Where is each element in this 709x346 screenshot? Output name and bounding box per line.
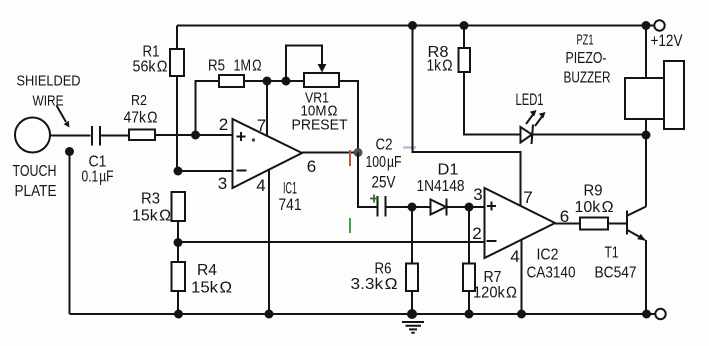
node IC2 pin4 rail [517, 310, 526, 319]
node D1/R7 [465, 203, 474, 212]
ground symbol [402, 322, 424, 333]
node R7 ground [465, 310, 474, 319]
resistor R1 [170, 49, 184, 76]
svg-text:R6: R6 [375, 261, 392, 278]
svg-text:4: 4 [510, 247, 519, 266]
node R4 ground rail [174, 310, 183, 319]
svg-text:3: 3 [473, 185, 482, 204]
svg-text:2: 2 [472, 224, 481, 243]
svg-text:10k Ω: 10k Ω [575, 199, 614, 216]
svg-text:R5: R5 [208, 58, 225, 75]
svg-text:3.3k Ω: 3.3k Ω [351, 276, 398, 293]
node rail buzzer [642, 21, 651, 30]
wire rail down and across to IC2 pin 7 [413, 26, 521, 207]
svg-text:2: 2 [219, 115, 228, 134]
svg-text:741: 741 [279, 195, 302, 214]
node R5 to plus input [191, 131, 200, 140]
svg-text:120k Ω: 120k Ω [473, 285, 517, 302]
wire emitter down to rail [645, 240, 647, 314]
svg-text:IC2: IC2 [537, 247, 559, 264]
node stray mark inside IC1 [252, 138, 255, 141]
diode D1 [431, 200, 447, 215]
wire collector up to buzzer node [645, 135, 647, 207]
scan color dash green [349, 218, 351, 233]
svg-text:6: 6 [307, 157, 316, 176]
svg-text:15k Ω: 15k Ω [132, 208, 171, 225]
svg-text:C2: C2 [376, 137, 393, 154]
svg-text:56k Ω: 56k Ω [133, 59, 168, 76]
wire R4 bottom to rail [177, 291, 179, 314]
svg-text:PRESET: PRESET [292, 117, 348, 134]
+12V terminal [654, 20, 664, 30]
svg-text:PLATE: PLATE [15, 183, 57, 200]
resistor R7 [463, 264, 475, 292]
svg-text:BUZZER: BUZZER [564, 70, 611, 87]
wire shield down the left side [69, 152, 71, 315]
node VR1 wiper loop [282, 77, 291, 86]
svg-text:+12V: +12V [651, 31, 684, 50]
node R6 ground [407, 309, 417, 319]
resistor R4 [172, 262, 186, 291]
wire R3 bottom to divider node [177, 221, 179, 243]
node emitter rail [642, 310, 651, 319]
node rail R8 [460, 21, 469, 30]
svg-text:1k Ω: 1k Ω [427, 58, 453, 75]
svg-text:D1: D1 [438, 162, 459, 179]
resistor R8 [459, 48, 471, 72]
node IC1 pin4 rail [265, 310, 274, 319]
wire R5 left leg down to plus input [196, 81, 220, 135]
output terminal bottom [655, 309, 665, 319]
svg-text:47k Ω: 47k Ω [124, 110, 158, 127]
wire buzzer drop [645, 26, 647, 79]
node IC1 output [354, 148, 363, 157]
wire IC1 pin 4 to rail [268, 170, 270, 315]
resistor R2 [129, 130, 155, 141]
svg-text:PIEZO-: PIEZO- [566, 50, 607, 67]
wire IC2 output to R9 [555, 223, 580, 225]
svg-text:WIRE: WIRE [33, 93, 64, 110]
svg-text:1N4148: 1N4148 [417, 178, 465, 195]
wire R1 top drop from rail [176, 26, 178, 50]
wire IC1 output [302, 152, 358, 154]
LED LED1 [521, 127, 533, 143]
wire R8 top [463, 26, 465, 49]
svg-text:CA3140: CA3140 [527, 265, 576, 282]
svg-text:4: 4 [256, 176, 265, 195]
wire VR1 wiper loop [286, 46, 322, 82]
capacitor C2 [378, 196, 386, 217]
node R3/R4 feedback junction [174, 238, 183, 247]
node R1/R3 inverting input junction [174, 167, 183, 176]
resistor R3 [172, 192, 186, 221]
svg-text:100 µF: 100 µF [366, 154, 402, 171]
piezo buzzer PZ1 [625, 78, 664, 119]
wire R7 top [468, 207, 470, 264]
wire IC2 pin 4 to rail [521, 240, 523, 315]
wire touch plate to C1 [50, 135, 91, 137]
resistor R6 [406, 264, 418, 292]
svg-text:3: 3 [218, 174, 227, 193]
op-amp IC2 [485, 188, 556, 258]
svg-text:PZ1: PZ1 [577, 32, 594, 49]
node C2/D1/R6 [408, 203, 417, 212]
wire R5 right to VR1 [244, 80, 304, 82]
wire buzzer bottom to node [645, 119, 647, 135]
wire R6 top [411, 207, 413, 264]
svg-text:SHIELDED: SHIELDED [17, 73, 81, 90]
svg-text:LED1: LED1 [516, 90, 544, 109]
svg-text:7: 7 [523, 188, 532, 207]
svg-text:15k Ω: 15k Ω [191, 280, 232, 297]
wire IC1 pin 7 [266, 81, 268, 137]
node R5/IC1 pin7 [263, 77, 272, 86]
op-amp IC1 [233, 119, 303, 188]
wire output node down to C2 [358, 153, 377, 208]
wire R6 bottom [411, 291, 413, 314]
wire VR1 right to output node [339, 81, 358, 153]
touch plate [15, 118, 50, 153]
scan color smudge blue [403, 146, 416, 149]
potentiometer VR1 [304, 73, 339, 87]
wire R4 top [177, 243, 179, 263]
wire C1 to R2 [101, 135, 130, 137]
svg-text:R9: R9 [584, 183, 603, 200]
wire R2 to IC1 plus input [155, 134, 233, 136]
wire R1 bottom down to inverting node [176, 76, 178, 171]
svg-text:R4: R4 [197, 262, 217, 279]
svg-text:R7: R7 [484, 269, 502, 286]
scan color dash red [349, 150, 351, 166]
svg-text:1M Ω: 1M Ω [234, 58, 262, 75]
node buzzer/LED/collector [642, 131, 651, 140]
wire D1 to IC2 plus input [447, 206, 485, 208]
LED arrow 1 [526, 115, 533, 125]
svg-text:R3: R3 [141, 191, 160, 208]
svg-text:0.1 µF: 0.1 µF [82, 169, 114, 186]
svg-text:7: 7 [257, 116, 266, 135]
wire feedback node to IC2 pin2 [178, 241, 485, 243]
transistor T1 [626, 211, 628, 235]
capacitor C1 [92, 126, 100, 146]
resistor R9 [580, 218, 608, 230]
svg-text:R2: R2 [131, 92, 147, 109]
svg-text:T1: T1 [605, 245, 619, 262]
shield ground stub dot [65, 147, 74, 156]
LED arrow 2 [535, 117, 542, 127]
wire R7 bottom [468, 291, 470, 314]
wire R9 to base [608, 223, 626, 225]
wiper arrowhead [318, 64, 327, 73]
resistor R5 [219, 75, 244, 87]
node rail to IC2 supply [408, 21, 417, 30]
wire C2 to D1 [386, 206, 431, 208]
svg-text:25V: 25V [372, 173, 397, 192]
wire LED to collector node [533, 134, 647, 136]
wire R8 bottom to LED [464, 72, 521, 135]
wire inverting input of IC1 [178, 170, 233, 172]
wire bottom ground rail [70, 313, 656, 315]
svg-text:BC547: BC547 [595, 265, 637, 282]
wire top +12V rail [177, 25, 654, 27]
svg-text:TOUCH: TOUCH [13, 163, 57, 180]
